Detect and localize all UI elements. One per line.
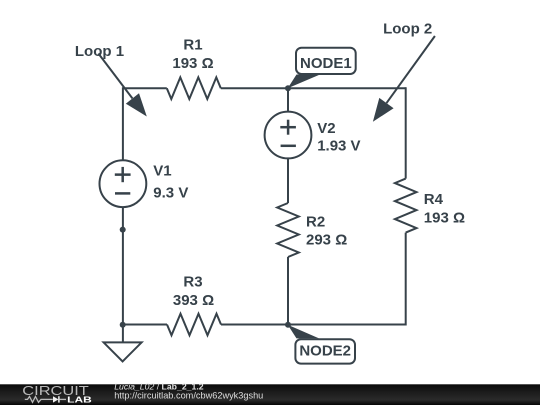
resistor R3: [167, 314, 221, 336]
svg-text:9.3 V: 9.3 V: [153, 184, 188, 201]
resistor R1: [167, 77, 221, 99]
voltage source V1: [100, 160, 147, 207]
ground: [122, 325, 124, 343]
svg-text:293 Ω: 293 Ω: [306, 231, 347, 248]
footer logo resistor squiggle: [25, 397, 53, 403]
svg-text:193 Ω: 193 Ω: [172, 55, 213, 72]
svg-text:Loop 1: Loop 1: [75, 43, 124, 60]
svg-text:R3: R3: [183, 273, 202, 290]
node dot left wire junction: [120, 227, 126, 233]
wire top: left corner to R1: [123, 87, 167, 89]
node dot NODE1: [285, 85, 291, 91]
wire right: R4 to bottom corner: [405, 233, 407, 326]
svg-text:R4: R4: [424, 191, 444, 208]
resistor R4: [395, 179, 417, 233]
svg-text:V1: V1: [153, 163, 171, 180]
svg-text:1.93 V: 1.93 V: [317, 137, 360, 154]
footer logo diode: [53, 396, 58, 402]
node A NODE1 label: [288, 75, 320, 89]
node dot NODE2: [285, 322, 291, 328]
node B NODE2 label: [288, 325, 319, 339]
wire right: top corner down to R4: [405, 87, 407, 178]
node dot ground junction: [120, 322, 126, 328]
svg-text:NODE2: NODE2: [299, 343, 351, 360]
wire middle: R2 bottom to NODE2: [287, 257, 289, 325]
svg-text:V2: V2: [317, 120, 335, 137]
svg-text:193 Ω: 193 Ω: [424, 209, 465, 226]
resistor R2: [277, 203, 299, 257]
svg-text:R1: R1: [183, 36, 202, 53]
svg-text:393 Ω: 393 Ω: [173, 292, 214, 309]
svg-text:NODE1: NODE1: [300, 55, 352, 72]
svg-text:R2: R2: [306, 213, 325, 230]
wire left: V1 bottom to ground node: [122, 207, 124, 325]
svg-text:Loop 2: Loop 2: [383, 20, 432, 37]
svg-text:http://circuitlab.com/cbw62wyk: http://circuitlab.com/cbw62wyk3gshu: [114, 390, 263, 400]
svg-text:LAB: LAB: [67, 395, 92, 405]
wire bottom: ground node to R3: [123, 324, 167, 326]
wire middle: NODE1 down to V2 top: [287, 88, 289, 112]
wire top: R1 to right corner: [221, 87, 406, 89]
wire middle: V2 bottom to R2 top: [287, 158, 289, 203]
wire bottom: R3 to right corner: [221, 324, 406, 326]
voltage source V2: [265, 112, 312, 159]
wire left: corner down to V1 top: [122, 87, 124, 160]
